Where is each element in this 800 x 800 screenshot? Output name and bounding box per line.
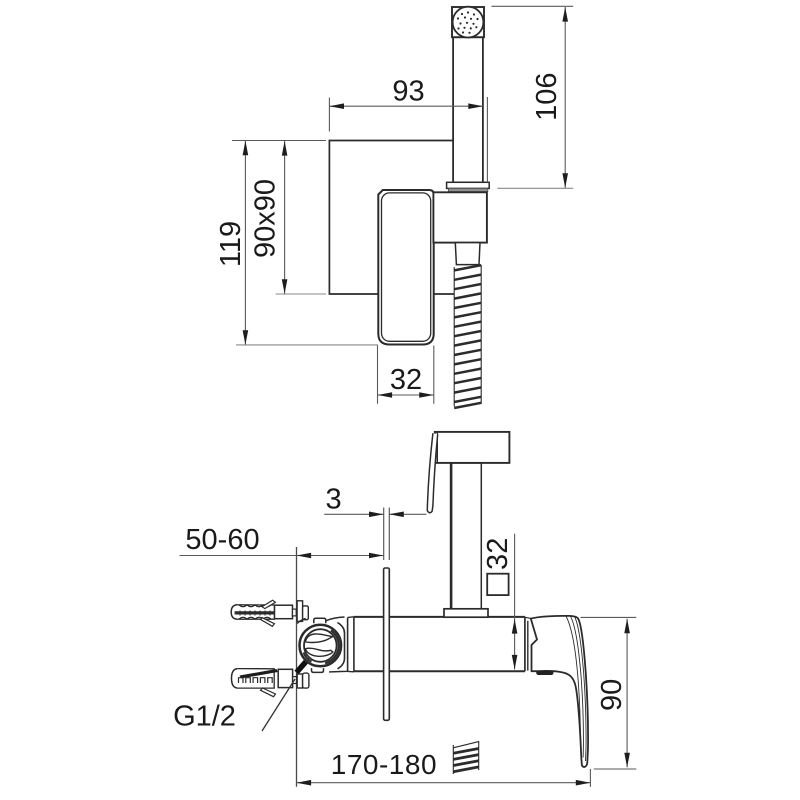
inner teeth	[239, 678, 273, 683]
handle (side view)	[531, 616, 588, 767]
lower wall anchor (dowel)	[232, 669, 309, 697]
svg-text:50-60: 50-60	[185, 524, 259, 556]
bracket rubber pad (gray)	[448, 188, 487, 191]
wall plate 90x90	[329, 141, 454, 295]
dim 90x90 bottom extension	[276, 293, 326, 295]
anchor expansion wing lower	[261, 618, 274, 627]
svg-text:G1/2: G1/2	[173, 701, 236, 733]
dim 106 top extension	[491, 5, 573, 7]
dim 170-180 right extension	[589, 769, 591, 787]
dim 170-180 arrows	[297, 780, 591, 786]
svg-text:170-180: 170-180	[331, 749, 437, 780]
dim 119 top extension	[232, 140, 326, 142]
holder block	[433, 192, 487, 242]
hot/cold wave marks	[305, 634, 332, 643]
dim 32 top-view left extension	[377, 346, 379, 404]
square symbol	[487, 574, 508, 595]
mixer body	[348, 617, 537, 672]
dim 93 arrows	[329, 103, 483, 109]
screw sleeve	[275, 605, 293, 619]
hose coils	[454, 265, 481, 408]
dim 90 arrows	[624, 619, 630, 768]
hand shower head (square)	[452, 7, 484, 37]
dim 119 bottom extension	[236, 344, 378, 346]
spray nozzle dots	[457, 11, 479, 33]
lower wing	[261, 688, 276, 697]
svg-text:3: 3	[326, 484, 342, 516]
dim 50-60 line	[180, 555, 384, 557]
flexible hose (spiral)	[454, 265, 481, 407]
dim 106 bottom extension	[497, 187, 573, 189]
hand shower shaft	[453, 37, 483, 182]
housing left curve to wall	[297, 618, 306, 623]
G1/2 leader line	[262, 679, 295, 731]
dim square32 arrows	[512, 619, 518, 670]
G1/2 leader arrow wedge	[297, 662, 306, 673]
body foot bump	[536, 671, 553, 675]
svg-text:32: 32	[482, 538, 514, 570]
dim 90 top extension	[581, 616, 637, 618]
dim 93 right extension	[486, 97, 488, 182]
mixer lever inner line	[382, 193, 431, 341]
anchor expansion wing upper	[262, 600, 275, 608]
dim 3 lines	[324, 513, 383, 515]
dim 3 extensions	[383, 508, 385, 561]
dim 3 arrows	[369, 512, 404, 518]
dim 93 line	[329, 105, 483, 107]
cartridge inner ring	[304, 629, 337, 662]
cartridge outer circle	[300, 625, 342, 667]
dim 170-180 line	[297, 782, 591, 784]
dim 90x90 arrows	[282, 141, 288, 294]
sprayer shaft (side view)	[451, 463, 482, 609]
hose nut (cone connector)	[455, 243, 480, 265]
ring shadow right arc	[325, 630, 339, 663]
dim 106 line	[564, 7, 566, 188]
svg-text:93: 93	[392, 76, 424, 108]
svg-text:90x90: 90x90	[250, 179, 282, 258]
folded wing on top (dark band)	[240, 669, 278, 679]
holder bracket clip	[447, 182, 490, 188]
mixer lever (vertical, outer outline)	[378, 190, 433, 345]
nozzle trigger	[427, 433, 437, 513]
upper wall anchor (dowel)	[231, 600, 308, 626]
dim 32 top-view right extension	[433, 346, 435, 404]
dim 32 top-view arrows	[378, 392, 434, 398]
screw thread inside anchor	[235, 611, 278, 614]
dim 119 arrows	[243, 141, 249, 345]
dim 50-60 arrows	[297, 553, 384, 559]
dim 90 bottom extension	[594, 768, 637, 770]
svg-text:119: 119	[215, 221, 247, 267]
cartridge bottom tab	[312, 668, 324, 672]
svg-text:90: 90	[596, 679, 628, 711]
dim 93 left extension	[328, 98, 330, 132]
dim 106 arrows	[562, 7, 568, 188]
dim 32 top-view line	[378, 394, 434, 396]
svg-text:32: 32	[390, 364, 422, 396]
screw head	[297, 601, 303, 622]
shaft base flange	[444, 609, 488, 617]
wall surface line	[296, 547, 298, 787]
screw sleeve	[278, 669, 292, 687]
cartridge top tab	[314, 618, 326, 623]
dim 90x90 line	[284, 141, 286, 294]
dim 119 line	[244, 141, 246, 345]
escutcheon plate (side)	[384, 568, 390, 720]
svg-text:106: 106	[531, 73, 563, 121]
handle surface lines	[575, 617, 587, 761]
sprayer head (side view)	[435, 432, 510, 463]
shower face circle	[453, 7, 484, 38]
dim 90 line	[626, 619, 628, 768]
hose break symbol	[453, 749, 478, 772]
ring shadow lower-left arc	[304, 653, 312, 662]
dim square32 extension line	[514, 534, 516, 670]
screw head	[297, 674, 302, 688]
cartridge housing behind circle	[326, 617, 345, 621]
